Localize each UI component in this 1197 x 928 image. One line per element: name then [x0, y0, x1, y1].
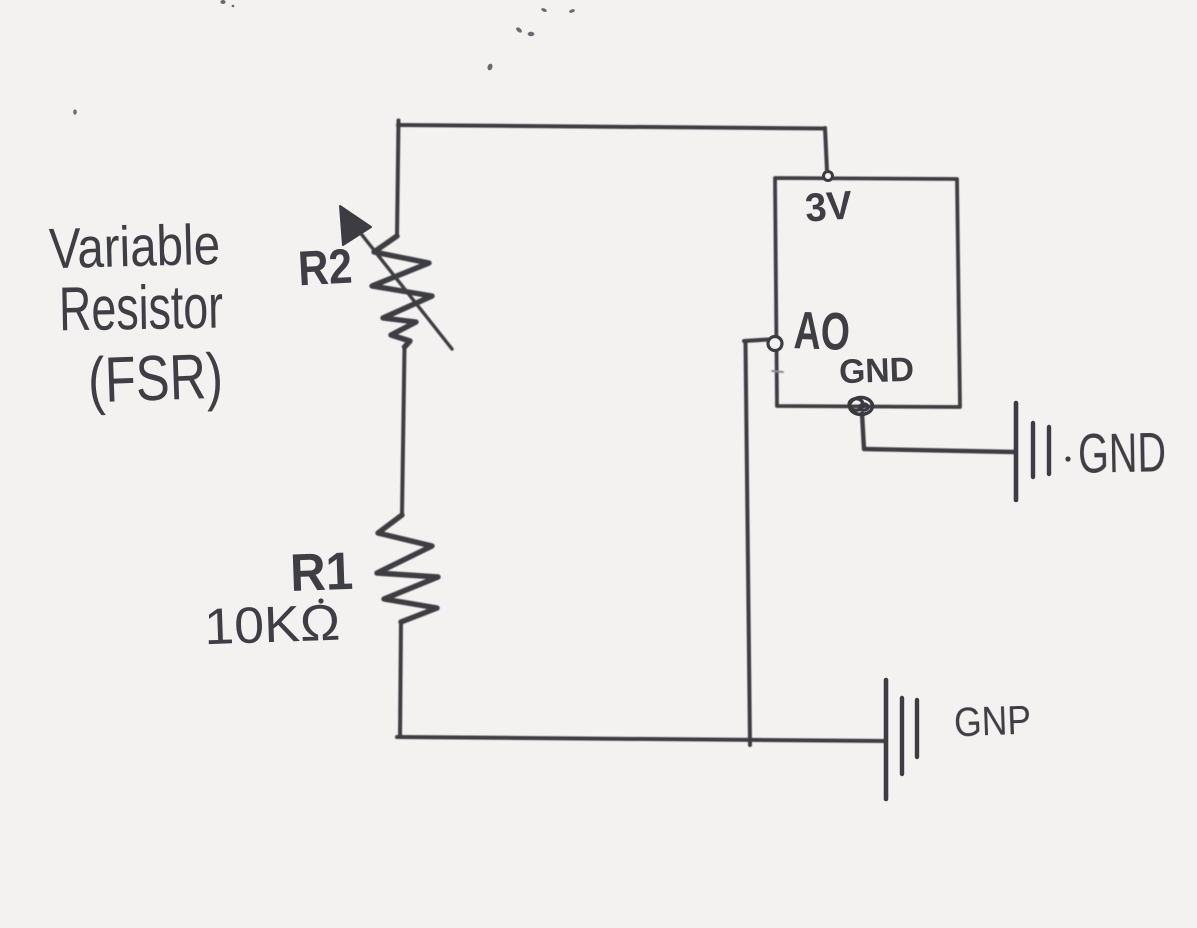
wire drop to 3V pin: [825, 128, 827, 171]
pin GND scribble: [849, 398, 873, 415]
resistor R1 zigzag: [377, 515, 438, 622]
wire R2 to R1: [402, 347, 405, 514]
wire AO net vertical: [746, 343, 751, 745]
variable resistor R2 zigzag: [372, 236, 432, 347]
svg-text:GNP: GNP: [953, 697, 1032, 746]
svg-text:R2: R2: [297, 240, 354, 297]
svg-text:GND: GND: [1078, 420, 1167, 485]
wire bottom rail: [397, 737, 885, 741]
pin AO: [768, 337, 782, 351]
IC box U1: [775, 178, 960, 407]
wire GND pin to ground: [862, 413, 1014, 452]
svg-text:3V: 3V: [804, 183, 854, 230]
pin 3V: [824, 172, 833, 181]
wire AO stub: [744, 340, 768, 342]
ground GNP (bottom): [886, 680, 917, 799]
stray dot before GND: [1065, 456, 1070, 461]
tick mark on box edge: [772, 371, 783, 372]
ground GND (right): [1016, 403, 1049, 500]
wire top rail: [398, 125, 825, 129]
svg-text:GND: GND: [838, 351, 914, 392]
dust specks: [73, 0, 575, 115]
svg-text:Variable: Variable: [48, 213, 221, 281]
wire R1 to bottom rail: [400, 623, 401, 737]
svg-text:(FSR): (FSR): [87, 340, 224, 417]
variable resistor R2 arrow line: [351, 221, 452, 349]
wire left vertical (top to R2): [397, 121, 399, 237]
variable resistor R2 arrowhead: [340, 206, 371, 245]
svg-text:Resistor: Resistor: [58, 273, 223, 345]
